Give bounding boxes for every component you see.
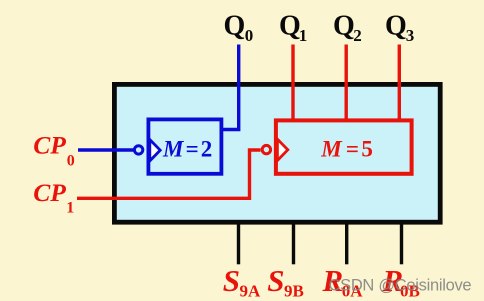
wire Q2: [345, 45, 348, 122]
wire CP1 input: [77, 150, 261, 198]
wire S9B: [292, 222, 295, 264]
svg-text:9B: 9B: [284, 281, 304, 300]
svg-text:5: 5: [361, 136, 373, 161]
inverting bubble M=2 clock: [134, 146, 142, 154]
svg-text:CP: CP: [33, 131, 66, 160]
svg-text:=: =: [346, 136, 359, 161]
svg-text:M: M: [320, 136, 343, 161]
svg-text:1: 1: [299, 26, 308, 45]
svg-text:3: 3: [406, 26, 415, 45]
svg-text:Q: Q: [279, 11, 301, 42]
svg-text:=: =: [186, 137, 199, 162]
wire CP0 input: [78, 148, 135, 151]
svg-text:Q: Q: [333, 11, 355, 42]
svg-text:0: 0: [67, 153, 75, 170]
svg-text:2: 2: [201, 137, 213, 162]
wire Q3: [398, 45, 401, 122]
svg-text:CSDN @Coisinilove: CSDN @Coisinilove: [329, 277, 472, 295]
svg-text:S: S: [267, 263, 284, 298]
svg-text:0: 0: [245, 26, 254, 45]
svg-text:S: S: [223, 263, 240, 298]
svg-text:Q: Q: [385, 11, 407, 42]
svg-text:Q: Q: [224, 11, 246, 42]
wire R0A: [345, 222, 348, 264]
wire Q0 output: [223, 45, 239, 130]
dynamic clock triangle M=5: [277, 139, 287, 160]
IC body box: [114, 84, 440, 222]
inverting bubble M=5 clock: [262, 145, 270, 153]
wire Q1: [291, 45, 294, 122]
flip-flop block M=2 (U1): [148, 119, 221, 173]
svg-text:2: 2: [353, 26, 362, 45]
dynamic clock triangle M=2: [150, 140, 160, 161]
svg-text:1: 1: [66, 200, 74, 217]
svg-text:CP: CP: [33, 178, 66, 207]
wire R0B: [400, 222, 403, 264]
svg-text:9A: 9A: [240, 281, 262, 300]
wire S9A: [237, 222, 240, 264]
svg-text:M: M: [162, 137, 185, 162]
flip-flop block M=5 (U2): [276, 120, 412, 173]
